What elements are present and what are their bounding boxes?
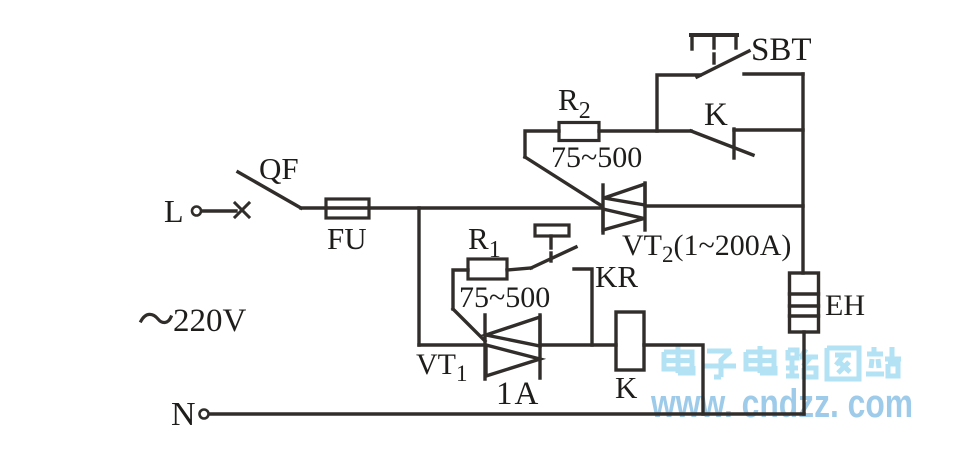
wire L to QF contact (202, 209, 236, 212)
wire QF to FU and through to VT2 (301, 206, 602, 209)
watermark char tu (827, 348, 859, 379)
wire N line (210, 412, 804, 415)
wire R1 left corner (453, 270, 468, 309)
svg-text:R1: R1 (468, 221, 501, 263)
thermostat contact KR arm (531, 247, 576, 268)
svg-text:K: K (704, 97, 728, 133)
svg-text:R2: R2 (558, 82, 591, 124)
wire KR fixed terminal corner (574, 269, 592, 345)
svg-text:KR: KR (595, 259, 638, 294)
watermark line 1: 电子电路图站 (664, 346, 901, 379)
wire SBT left (657, 75, 700, 131)
svg-text:N: N (171, 396, 196, 433)
pushbutton SBT actuator bar (691, 35, 737, 63)
wire VT1 left (419, 343, 484, 346)
svg-text:FU: FU (327, 221, 367, 256)
wire R2 right to K contact junction (599, 129, 691, 132)
svg-text:K: K (615, 370, 638, 405)
wire EH bottom to N line (802, 332, 805, 414)
watermark char dian 1 (664, 346, 693, 373)
relay contact K fixed post (732, 129, 735, 158)
triac VT1 (485, 315, 540, 379)
thermostat KR actuator (535, 225, 569, 261)
svg-text:1A: 1A (496, 376, 540, 412)
relay coil K (616, 312, 644, 370)
breaker QF fixed contact X (235, 203, 249, 217)
svg-text:75~500: 75~500 (551, 141, 642, 174)
wire SBT right (744, 72, 803, 75)
wire K coil right to N line (644, 345, 703, 414)
wire K contact right (734, 128, 803, 131)
wire R1 gate diagonal to VT1 (453, 309, 485, 341)
fuse FU (326, 199, 369, 218)
svg-text:VT2(1~200A): VT2(1~200A) (622, 229, 791, 267)
terminal L (164, 193, 201, 229)
pushbutton SBT contact arm (697, 51, 749, 77)
svg-text:L: L (164, 193, 184, 229)
watermark char zhan (866, 347, 901, 376)
resistor R2 (559, 123, 599, 141)
svg-text:SBT: SBT (751, 32, 812, 68)
label ~220V (141, 303, 247, 339)
terminal N (171, 396, 209, 433)
wire R2 gate diagonal to VT2 (525, 157, 602, 206)
watermark char dian 2 (746, 346, 775, 373)
wire R2 left corner (525, 131, 559, 157)
resistor R1 (468, 259, 507, 279)
relay contact K arm (691, 131, 753, 155)
heater EH (790, 273, 819, 332)
watermark char lu (786, 349, 818, 377)
triac VT2 (603, 183, 645, 233)
svg-text:75~500: 75~500 (459, 281, 550, 314)
wire VT2 output to right rail (645, 204, 803, 207)
svg-text:EH: EH (825, 289, 865, 322)
wire R1 right to KR (507, 268, 531, 270)
svg-text:220V: 220V (173, 303, 247, 339)
wire right rail (801, 74, 804, 273)
svg-text:QF: QF (259, 151, 299, 186)
wire junction vertical to VT1 branch (417, 208, 420, 345)
wire VT1 right to K coil (541, 343, 616, 346)
watermark char zi (703, 351, 736, 377)
svg-text:VT1: VT1 (416, 348, 468, 386)
svg-text:www. cndzz. com: www. cndzz. com (650, 382, 913, 426)
breaker QF blade (238, 172, 301, 208)
